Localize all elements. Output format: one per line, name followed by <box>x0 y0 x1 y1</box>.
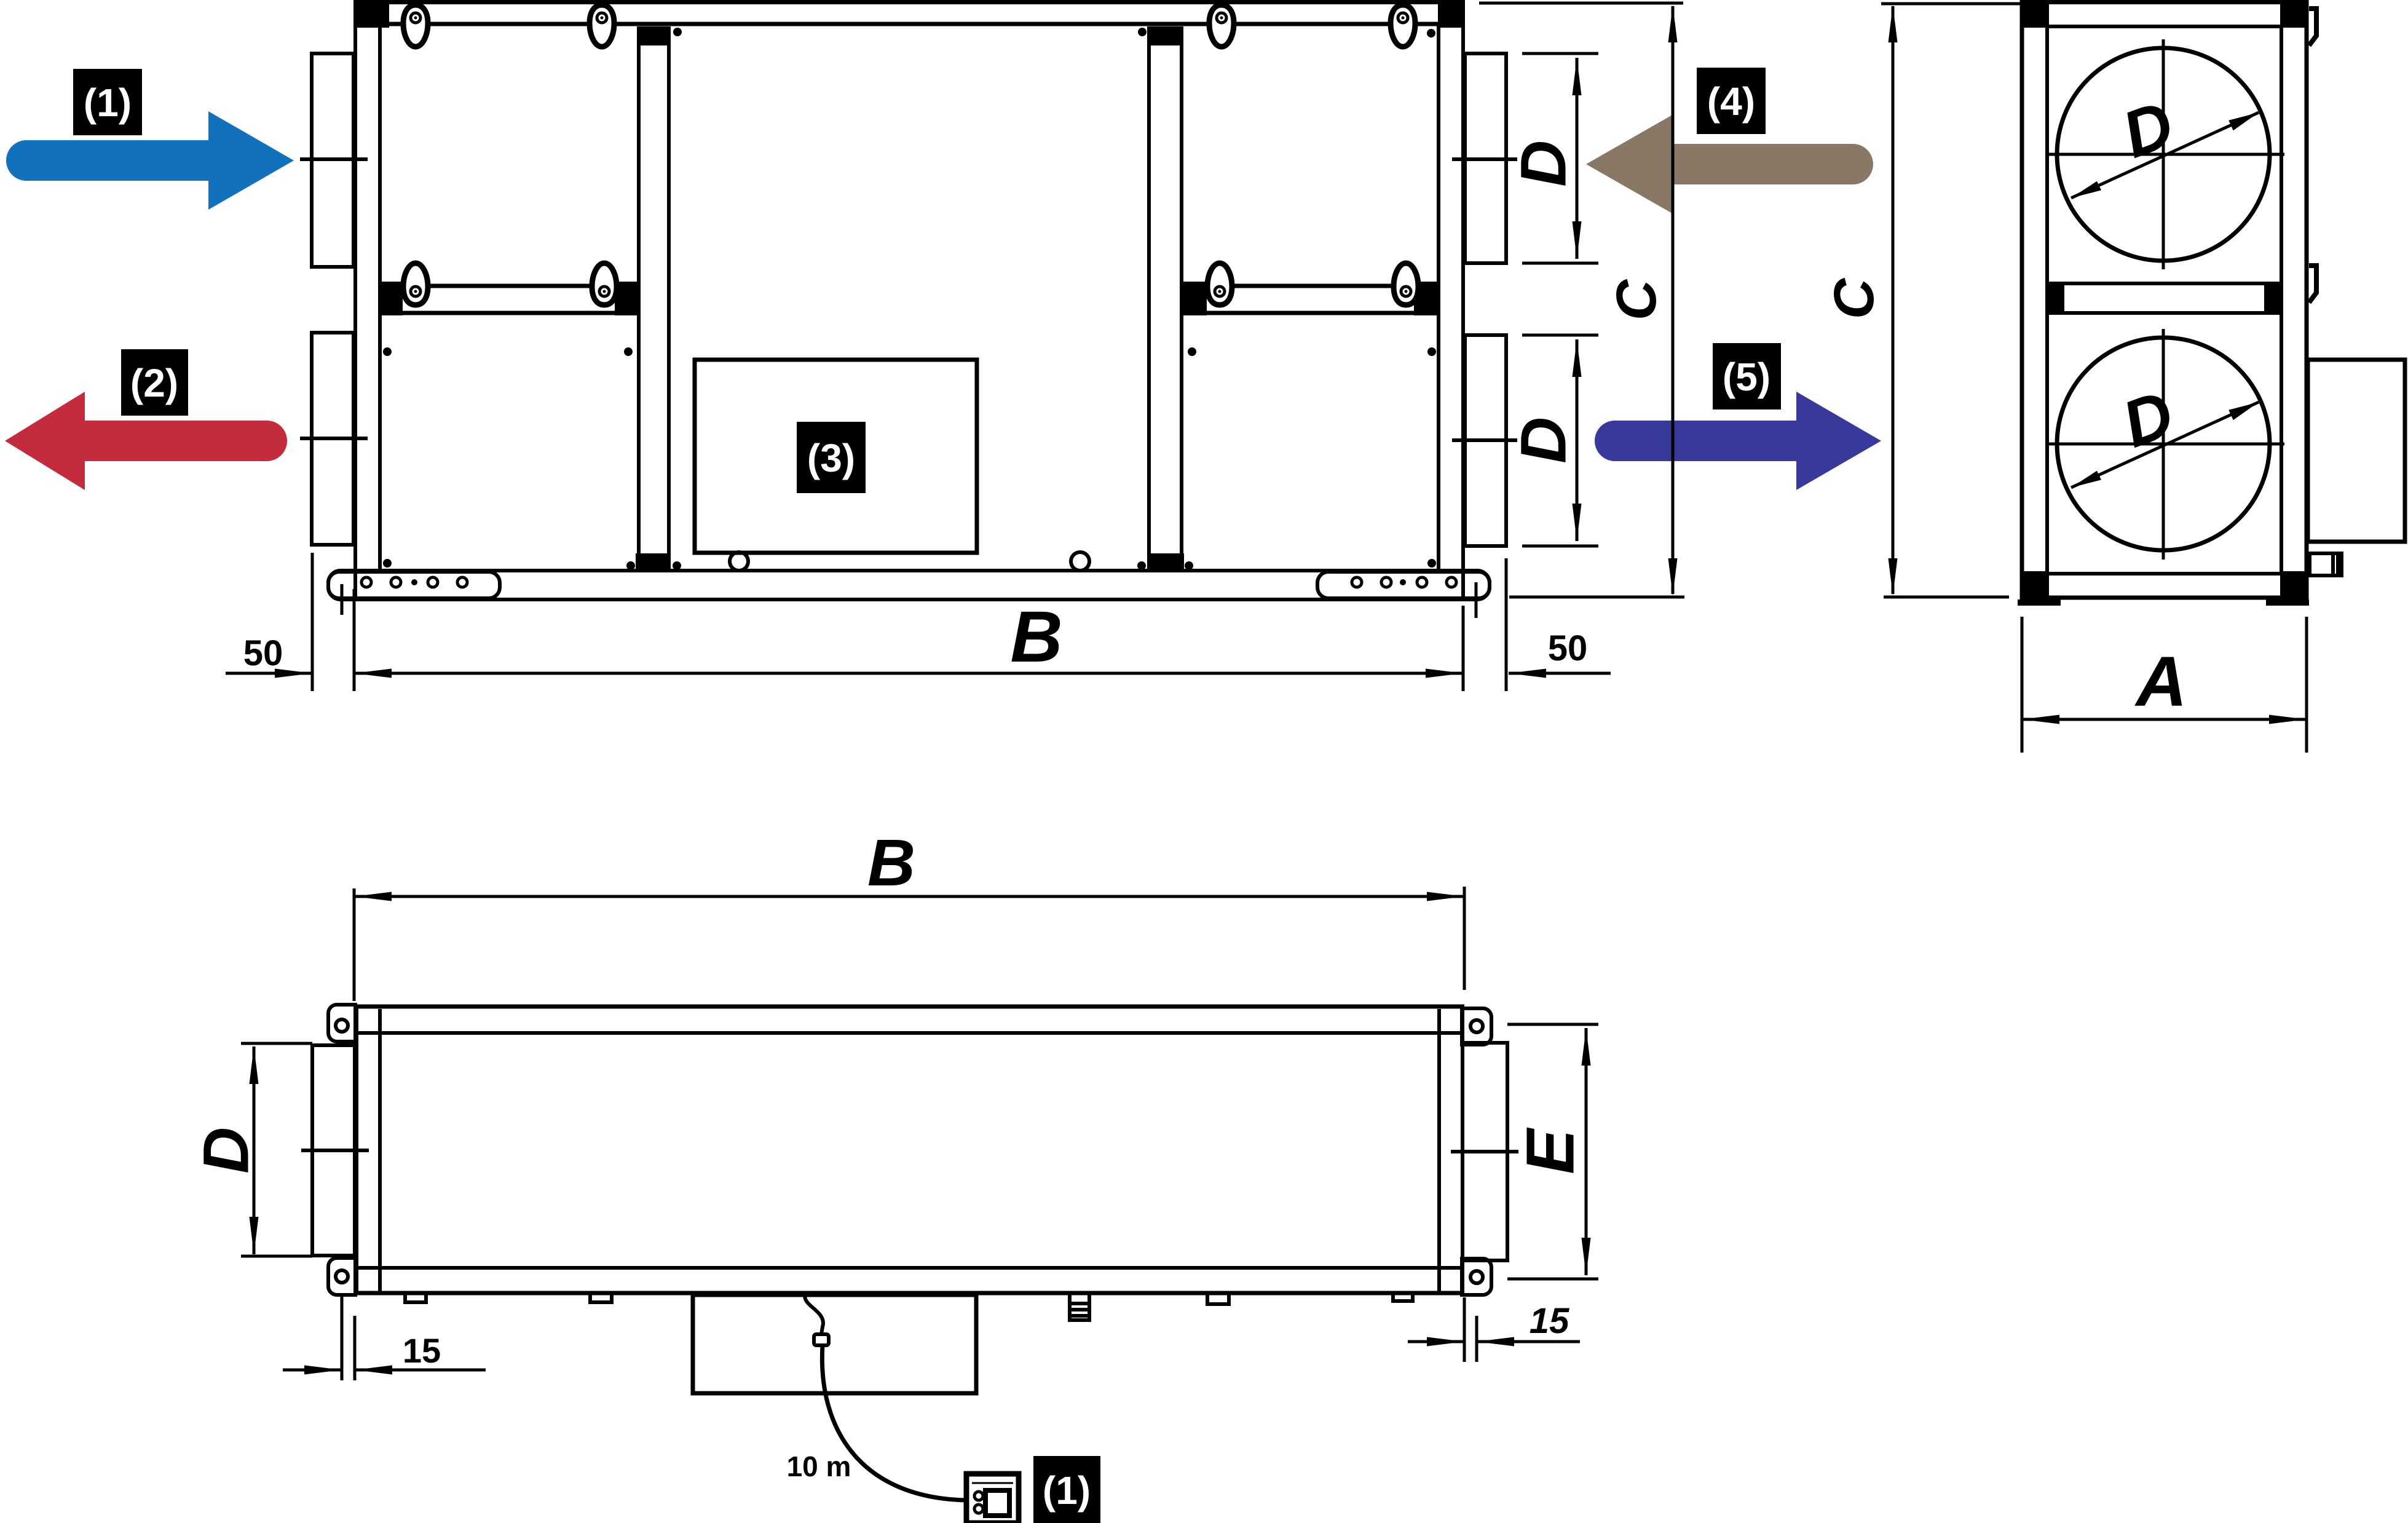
svg-text:(2): (2) <box>130 361 178 405</box>
svg-text:D: D <box>2113 376 2183 461</box>
svg-text:(4): (4) <box>1707 79 1755 124</box>
svg-text:15: 15 <box>1530 1301 1569 1341</box>
svg-text:C: C <box>1823 277 1885 319</box>
svg-text:A: A <box>2134 643 2187 721</box>
svg-text:(1): (1) <box>1043 1468 1091 1513</box>
svg-text:D: D <box>2113 86 2183 172</box>
svg-text:15: 15 <box>403 1331 441 1370</box>
svg-text:(5): (5) <box>1723 355 1770 399</box>
svg-text:B: B <box>867 825 915 900</box>
svg-text:C: C <box>1605 279 1668 320</box>
svg-text:D: D <box>191 1127 263 1174</box>
svg-text:(3): (3) <box>807 436 855 480</box>
svg-text:B: B <box>1010 596 1062 678</box>
svg-text:E: E <box>1513 1127 1589 1174</box>
svg-text:50: 50 <box>243 633 283 673</box>
svg-text:(1): (1) <box>84 81 132 125</box>
svg-text:50: 50 <box>1548 628 1588 668</box>
svg-text:D: D <box>1508 417 1580 464</box>
svg-text:D: D <box>1508 140 1580 187</box>
svg-text:10 m: 10 m <box>787 1450 851 1482</box>
